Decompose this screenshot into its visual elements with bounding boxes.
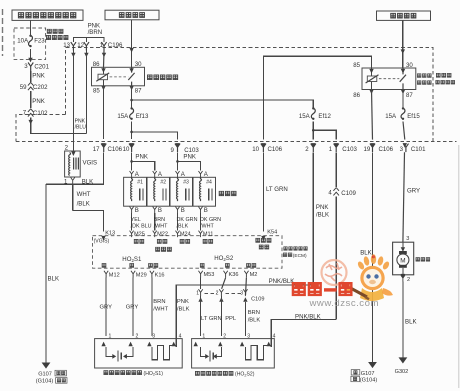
- svg-text:C106: C106: [108, 146, 123, 153]
- injector #4: [200, 177, 213, 201]
- wire C196-13 down to VGIS pin2: [72, 51, 74, 152]
- wire LT GRN C106-10R to ECM K54: [262, 152, 264, 231]
- relay coil: [98, 74, 108, 80]
- svg-text:C201: C201: [34, 63, 49, 70]
- svg-text:M22: M22: [157, 231, 168, 237]
- svg-text:K54: K54: [267, 230, 277, 236]
- svg-text:Ef13: Ef13: [136, 113, 149, 120]
- rear sensor pin arrows: [194, 342, 198, 347]
- connector C202 pin 59: [28, 82, 34, 90]
- svg-text:/WHT: /WHT: [200, 223, 214, 229]
- label 燃油泵控制 under K54: [256, 238, 271, 242]
- wire GRY C101-3 down to fuel pump: [403, 152, 405, 242]
- feed wire to fuse Ef12: [132, 100, 314, 108]
- svg-text:(HO2S1): (HO2S1): [144, 371, 164, 377]
- svg-text:C106: C106: [268, 146, 283, 153]
- svg-text:(VGIS): (VGIS): [94, 239, 110, 245]
- label 喷油器 (injector box): [219, 191, 236, 195]
- fuel pump: [393, 236, 414, 282]
- svg-text:BLK: BLK: [360, 250, 372, 257]
- arrows below C196: [71, 53, 75, 58]
- wire PNK: [30, 91, 32, 108]
- svg-text:/BRN: /BRN: [88, 29, 103, 36]
- svg-text:M29: M29: [136, 273, 147, 279]
- svg-text:C102: C102: [33, 110, 48, 117]
- svg-text:85: 85: [353, 62, 360, 69]
- svg-text:10: 10: [123, 146, 130, 153]
- ground G107 (G104) left: [42, 363, 51, 369]
- svg-text:G107: G107: [361, 371, 375, 377]
- svg-text:PNK: PNK: [177, 299, 189, 305]
- wire C196-12 down to C102 junction: [85, 51, 87, 134]
- wire PNK injector feed left, C106-10 split to #1 #2: [131, 152, 133, 170]
- svg-text:#2: #2: [160, 180, 166, 186]
- svg-text:15A: 15A: [117, 113, 129, 120]
- svg-text:YEL: YEL: [131, 217, 141, 223]
- svg-text:(HO2S2): (HO2S2): [235, 372, 255, 378]
- injector #2: [154, 177, 167, 201]
- fuse Ef13 15A: [130, 107, 134, 120]
- wires injectors B to ECM: [132, 213, 201, 230]
- front sensor pin arrows: [101, 342, 105, 347]
- rear sensor wires LT GRN PPL BRN/BLK: [201, 296, 246, 336]
- full width dashed harness line: [16, 141, 457, 143]
- svg-text:/BLK: /BLK: [177, 306, 190, 312]
- scan border artifact right edge: [458, 145, 460, 388]
- svg-text:(G104): (G104): [36, 379, 54, 385]
- svg-text:#4: #4: [206, 180, 212, 186]
- relay dashed link: [379, 78, 399, 80]
- wire VGIS pin1 junction to C106-17 and ground: [72, 184, 74, 211]
- svg-text:M12: M12: [109, 273, 120, 279]
- svg-text:C109: C109: [341, 190, 356, 197]
- wire B1 to fuse F23: [30, 20, 32, 34]
- rear sensor heater zigzag: [245, 345, 271, 359]
- svg-text:C196: C196: [108, 42, 123, 49]
- svg-text:C103: C103: [342, 146, 357, 153]
- svg-text:BLK: BLK: [405, 318, 417, 325]
- wire BLK C106-19 down to G107 right: [372, 152, 374, 362]
- svg-text:M53: M53: [204, 272, 215, 278]
- svg-text:M24: M24: [180, 231, 191, 237]
- wire ignition relay 85 to C106-17: [103, 86, 105, 139]
- ECM pins M25 M22 M24 M11: [130, 231, 134, 238]
- svg-text:M11: M11: [203, 231, 213, 237]
- wire Ef12 split to C103-2 and C103-1: [312, 122, 314, 140]
- relay coil: [367, 76, 377, 82]
- power box B3 随时通电: [377, 11, 431, 20]
- svg-text:K36: K36: [229, 272, 239, 278]
- svg-text:Ef12: Ef12: [318, 113, 331, 120]
- connector C102 pin 7: [28, 109, 34, 117]
- svg-text:87: 87: [406, 92, 413, 99]
- ECM bottom pins M53 K36 M2: [198, 271, 202, 278]
- svg-text:BRN: BRN: [248, 310, 260, 316]
- front sensor box HO2S1: [95, 339, 183, 368]
- injector #3: [177, 177, 190, 201]
- svg-text:30: 30: [406, 62, 413, 69]
- ground G302: [399, 357, 408, 363]
- svg-text:PNK/BLK: PNK/BLK: [269, 278, 295, 285]
- connector C103 pin 9: [175, 144, 180, 153]
- svg-text:G302: G302: [395, 369, 409, 375]
- svg-text:C109: C109: [251, 297, 264, 303]
- wire labels YEL/DK BLU BRN/WHT DK GRN/BLK DK GRN/WHT: [131, 217, 221, 230]
- svg-text:87: 87: [135, 88, 142, 95]
- svg-text:www.dzsc.com: www.dzsc.com: [309, 298, 379, 309]
- svg-text:(G104): (G104): [360, 378, 378, 384]
- svg-text:(ECM): (ECM): [293, 253, 307, 259]
- connector C201 pin 3: [28, 63, 33, 72]
- wire fp relay 86 down to C106-19: [372, 90, 373, 140]
- svg-text:/WHT: /WHT: [154, 223, 168, 229]
- wire C103-1 down to C109-4: [335, 152, 337, 187]
- svg-text:/BLK: /BLK: [248, 317, 261, 323]
- svg-text:/BLK: /BLK: [177, 223, 189, 229]
- svg-text:BRN: BRN: [154, 217, 165, 223]
- svg-text:2: 2: [407, 277, 410, 283]
- wire Ef15 to C101-3: [403, 122, 405, 140]
- svg-text:10: 10: [252, 146, 259, 153]
- svg-text:19: 19: [364, 146, 371, 153]
- label 发动机舱保险盒: [436, 73, 455, 84]
- connector C196 pins 13 12 1: [71, 42, 76, 51]
- labels 低 高 搭铁 HO2S2: [200, 264, 256, 268]
- fuse Ef12 15A: [311, 107, 315, 120]
- VGIS solenoid: wire arrow into pin 2: [71, 151, 75, 156]
- svg-text:BRN: BRN: [153, 299, 165, 305]
- svg-text:PNK: PNK: [32, 98, 45, 105]
- relay switch: [400, 68, 406, 90]
- label 喷油器 inside ECM: [156, 247, 172, 251]
- svg-text:PNK/BLK: PNK/BLK: [295, 313, 321, 320]
- injector #1: [131, 177, 144, 201]
- front heater feed PNK/BLK horizontal from C103-2: [176, 285, 313, 336]
- rear sensor cell: [201, 347, 222, 356]
- svg-text:/DK BLU: /DK BLU: [131, 223, 152, 229]
- svg-text:VGIS: VGIS: [83, 160, 98, 167]
- label 点火继电器: [148, 75, 178, 80]
- svg-text:PPL: PPL: [225, 316, 237, 322]
- connector C101 pin 3: [403, 144, 408, 153]
- svg-text:2: 2: [216, 291, 219, 297]
- labels 控制 x4 inside ECM: [134, 239, 144, 243]
- ignition relay box: [92, 67, 145, 90]
- svg-text:LT GRN: LT GRN: [266, 186, 288, 193]
- svg-text:3: 3: [406, 236, 409, 242]
- label 发动机控制模块(ECM) right of ECM box: [284, 247, 307, 250]
- svg-text:GRY: GRY: [126, 305, 139, 311]
- svg-text:/WHT: /WHT: [153, 306, 168, 312]
- rear sensor box HO2S2: [192, 339, 275, 368]
- watermark mascot: [344, 254, 393, 301]
- wire PNK injector feed right, C103-9 split to #3 #4: [177, 152, 179, 170]
- svg-text:PNK: PNK: [183, 153, 196, 160]
- svg-text:/BLK: /BLK: [316, 211, 329, 218]
- front sensor heater zigzag: [152, 345, 176, 359]
- VGIS coil: [69, 153, 71, 176]
- svg-text:/BLK: /BLK: [77, 200, 90, 207]
- ECM box dashed: [93, 236, 283, 269]
- VGIS box: [65, 151, 81, 177]
- fuse Ef15 15A: [401, 107, 405, 120]
- svg-text:HO2S2: HO2S2: [214, 255, 234, 262]
- ground wire BLK down to G107: [45, 184, 47, 362]
- svg-text:DK GRN: DK GRN: [177, 217, 198, 223]
- power box B1 运行和启动时通电: [12, 10, 83, 20]
- svg-text:PNK: PNK: [135, 153, 148, 160]
- svg-text:DK GRN: DK GRN: [200, 217, 221, 223]
- svg-text:86: 86: [353, 92, 360, 99]
- wire Ef13 to C106-10 with branch to C103-9: [131, 122, 133, 139]
- label 仪表板保险丝盒: [46, 29, 68, 39]
- svg-text:C101: C101: [411, 146, 426, 153]
- injector pin A connectors: [130, 171, 134, 178]
- svg-text:10A: 10A: [17, 37, 29, 44]
- scan border artifact left edge: [2, 9, 4, 56]
- connector C106 pin 17: [101, 144, 106, 153]
- svg-text:GRY: GRY: [407, 187, 420, 194]
- wire B2 down to ignition relay 30: [131, 20, 133, 68]
- label 燃油泵 (pump): [416, 258, 430, 262]
- svg-text:15A: 15A: [299, 113, 311, 120]
- wire C196-1 down to ignition relay 86: [103, 51, 106, 68]
- svg-text:2: 2: [305, 146, 309, 153]
- engine compartment fuse box dashed boundary: [65, 48, 433, 142]
- wire fp relay 87 to fuse Ef15: [402, 90, 404, 108]
- svg-text:B: B: [204, 207, 208, 214]
- wire F23 to C201 with arrow: [30, 49, 32, 58]
- svg-text:B: B: [135, 207, 139, 214]
- ECM bottom pins M12 M29 K16: [104, 271, 108, 278]
- connector C109 pins 1 2 3: [198, 289, 202, 296]
- arrows below C109: [198, 297, 202, 301]
- relay dashed link: [110, 76, 129, 78]
- wire C106-10R up to fuel pump relay 85: [263, 56, 371, 139]
- rear heater feed PNK/BLK horizontal from C109-4: [271, 320, 336, 337]
- connector C106 pin 10 right: [261, 144, 266, 153]
- wire C109-4 down to rear heater feed: [335, 196, 337, 319]
- svg-text:12: 12: [77, 42, 84, 49]
- svg-text:15A: 15A: [385, 113, 397, 120]
- svg-text:1: 1: [196, 291, 199, 297]
- svg-text:M: M: [400, 257, 405, 264]
- svg-text:M2: M2: [250, 272, 258, 278]
- instrument panel fuse box (dashed): [14, 28, 46, 60]
- svg-text:Ef15: Ef15: [407, 113, 420, 120]
- wire PNK: [30, 71, 32, 82]
- svg-text:F23: F23: [34, 37, 45, 44]
- relay switch: [128, 67, 134, 86]
- label 后加热氧传感器(HO2S2): [195, 371, 233, 375]
- rear HO2S2 wires to C109: [200, 278, 202, 289]
- connector C103 pin 2: [311, 144, 316, 153]
- svg-text:#1: #1: [137, 180, 143, 186]
- injector pin B connectors: [130, 207, 134, 214]
- relay pin arrows: [101, 68, 105, 73]
- svg-text:PNK: PNK: [32, 72, 45, 79]
- wire C102 into engine harness, right to C196 pin12: [31, 118, 87, 134]
- svg-text:85: 85: [93, 88, 100, 95]
- label 燃油泵继电器: [417, 74, 431, 85]
- connector C103 pin 1: [334, 144, 339, 153]
- C196 bridge wire PNK/BRN: [73, 37, 104, 42]
- relay pin arrows: [369, 69, 373, 74]
- svg-text:C202: C202: [33, 84, 48, 91]
- injector box: [124, 177, 216, 206]
- wire ignition relay 87 down with junction: [131, 86, 133, 108]
- svg-text:/BLU: /BLU: [75, 124, 87, 130]
- VGIS pin 1 connector: [71, 177, 75, 184]
- svg-text:59: 59: [20, 84, 27, 91]
- svg-text:C106: C106: [379, 146, 394, 153]
- svg-text:13: 13: [63, 42, 70, 49]
- labels 低 高 搭铁 HO2S1: [102, 264, 158, 268]
- svg-text:PNK: PNK: [316, 204, 329, 211]
- svg-text:7: 7: [23, 110, 27, 117]
- svg-text:WHT: WHT: [77, 191, 91, 198]
- watermark red text 维库一下: [293, 283, 351, 295]
- svg-text:B: B: [158, 207, 162, 214]
- watermark stamp circle: [322, 260, 347, 285]
- svg-text:HO2S1: HO2S1: [122, 256, 142, 263]
- svg-text:K16: K16: [155, 273, 165, 279]
- svg-text:30: 30: [135, 61, 142, 68]
- connector C109 pin 4 inline: [333, 188, 339, 196]
- ground G107 (G104) right: [368, 362, 377, 368]
- power box B2 随时通电: [105, 10, 159, 20]
- fuse F23 10A: [29, 35, 33, 48]
- fuel pump relay box: [362, 68, 416, 94]
- svg-text:GRY: GRY: [100, 305, 113, 311]
- svg-text:#3: #3: [183, 180, 189, 186]
- wire B3 down to fuel pump relay 30: [402, 20, 404, 68]
- svg-text:G107: G107: [38, 371, 52, 377]
- svg-text:BLK: BLK: [48, 275, 60, 282]
- svg-text:17: 17: [93, 146, 100, 153]
- front HO2S1 wires GRY GRY BRN/WHT: [106, 278, 152, 337]
- svg-text:B: B: [181, 207, 185, 214]
- label 前加热氧传感器(HO2S1): [104, 371, 142, 375]
- connector C106 pin 10: [129, 144, 134, 153]
- svg-text:86: 86: [93, 61, 100, 68]
- connector C106 pin 19: [370, 144, 375, 153]
- svg-text:M25: M25: [134, 231, 145, 237]
- svg-text:LT GRN: LT GRN: [201, 316, 222, 322]
- front sensor cell: [106, 347, 133, 356]
- wire C103-2 down to front heater feed: [312, 152, 314, 285]
